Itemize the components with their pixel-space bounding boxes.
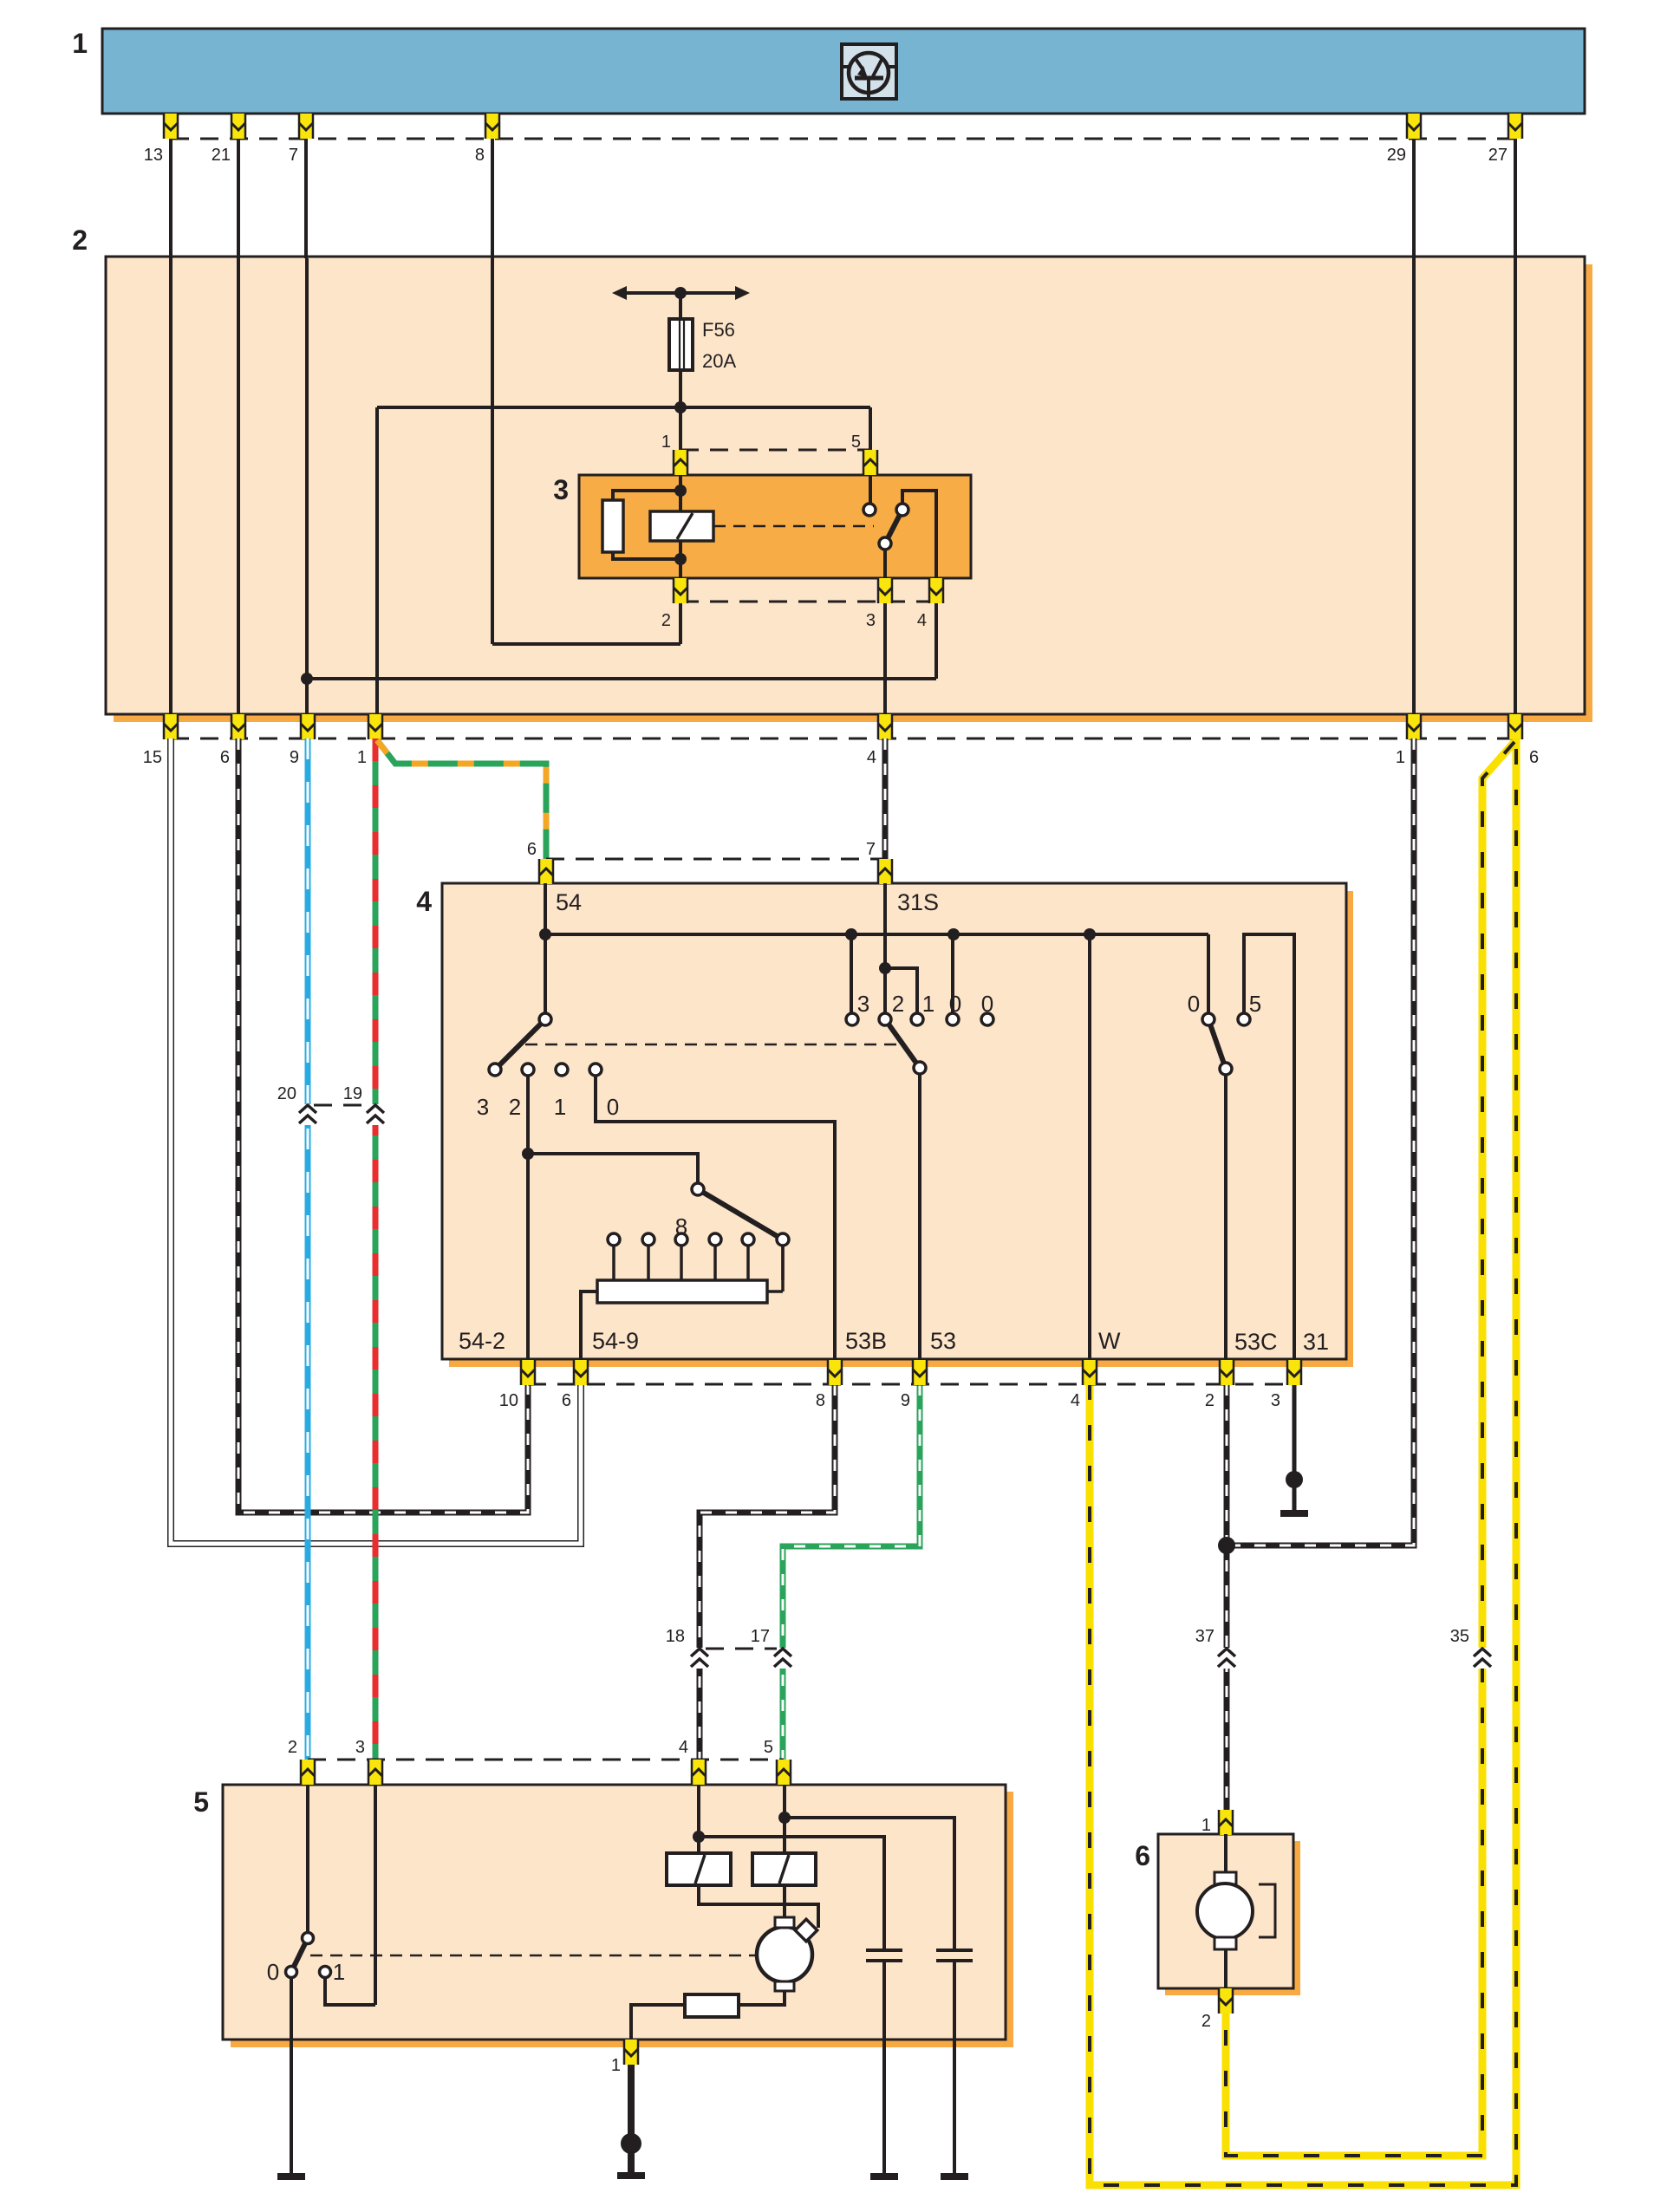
svg-text:3: 3 [553,474,569,505]
svg-text:4: 4 [917,611,927,630]
svg-text:0: 0 [949,991,961,1017]
svg-text:5: 5 [851,433,861,452]
svg-text:3: 3 [355,1738,365,1757]
svg-text:1: 1 [1396,748,1405,767]
svg-text:15: 15 [143,748,162,767]
svg-text:8: 8 [475,146,485,165]
svg-text:17: 17 [751,1627,770,1646]
svg-text:9: 9 [901,1391,910,1410]
svg-text:53C: 53C [1234,1329,1278,1355]
svg-text:0: 0 [607,1094,619,1120]
svg-text:4: 4 [416,886,432,917]
svg-text:1: 1 [72,28,88,59]
svg-text:1: 1 [333,1959,345,1985]
svg-text:54-9: 54-9 [592,1328,639,1354]
svg-text:2: 2 [288,1738,297,1757]
svg-text:1: 1 [1201,1816,1211,1835]
svg-text:1: 1 [554,1094,566,1120]
svg-text:18: 18 [666,1627,685,1646]
svg-text:3: 3 [1271,1391,1280,1410]
svg-text:31S: 31S [897,889,939,915]
svg-text:8: 8 [816,1391,825,1410]
svg-text:W: W [1098,1328,1121,1354]
svg-text:2: 2 [509,1094,521,1120]
svg-text:37: 37 [1195,1627,1214,1646]
svg-text:7: 7 [289,146,298,165]
svg-text:6: 6 [1529,748,1539,767]
svg-text:3: 3 [477,1094,489,1120]
svg-text:21: 21 [212,146,231,165]
svg-text:8: 8 [675,1213,687,1239]
svg-text:0: 0 [267,1959,279,1985]
svg-text:3: 3 [857,991,869,1017]
svg-text:53: 53 [930,1328,956,1354]
svg-text:27: 27 [1488,146,1507,165]
svg-text:2: 2 [72,224,88,256]
svg-text:0: 0 [981,991,993,1017]
svg-text:1: 1 [357,748,367,767]
svg-text:9: 9 [290,748,299,767]
svg-text:5: 5 [1249,991,1261,1017]
svg-text:6: 6 [220,748,230,767]
svg-text:29: 29 [1387,146,1406,165]
svg-text:10: 10 [499,1391,518,1410]
svg-text:5: 5 [764,1738,773,1757]
svg-text:2: 2 [892,991,904,1017]
svg-text:4: 4 [1071,1391,1080,1410]
svg-text:54-2: 54-2 [459,1328,505,1354]
svg-text:53B: 53B [845,1328,887,1354]
svg-text:54: 54 [556,889,582,915]
svg-text:19: 19 [343,1084,362,1103]
svg-text:5: 5 [193,1786,209,1818]
svg-text:6: 6 [562,1391,571,1410]
svg-text:6: 6 [1135,1840,1150,1871]
svg-text:1: 1 [661,433,671,452]
svg-text:4: 4 [679,1738,688,1757]
svg-text:4: 4 [867,748,876,767]
svg-text:1: 1 [611,2056,621,2075]
svg-text:20A: 20A [702,350,736,372]
svg-text:35: 35 [1450,1627,1469,1646]
svg-text:F56: F56 [702,319,735,341]
svg-text:2: 2 [1205,1391,1214,1410]
svg-text:20: 20 [277,1084,296,1103]
svg-text:6: 6 [527,840,537,859]
svg-text:13: 13 [144,146,163,165]
svg-text:31: 31 [1303,1329,1329,1355]
svg-text:0: 0 [1188,991,1200,1017]
svg-text:1: 1 [922,991,934,1017]
svg-text:3: 3 [866,611,876,630]
svg-text:2: 2 [1201,2012,1211,2031]
svg-text:2: 2 [661,611,671,630]
svg-text:7: 7 [866,840,876,859]
